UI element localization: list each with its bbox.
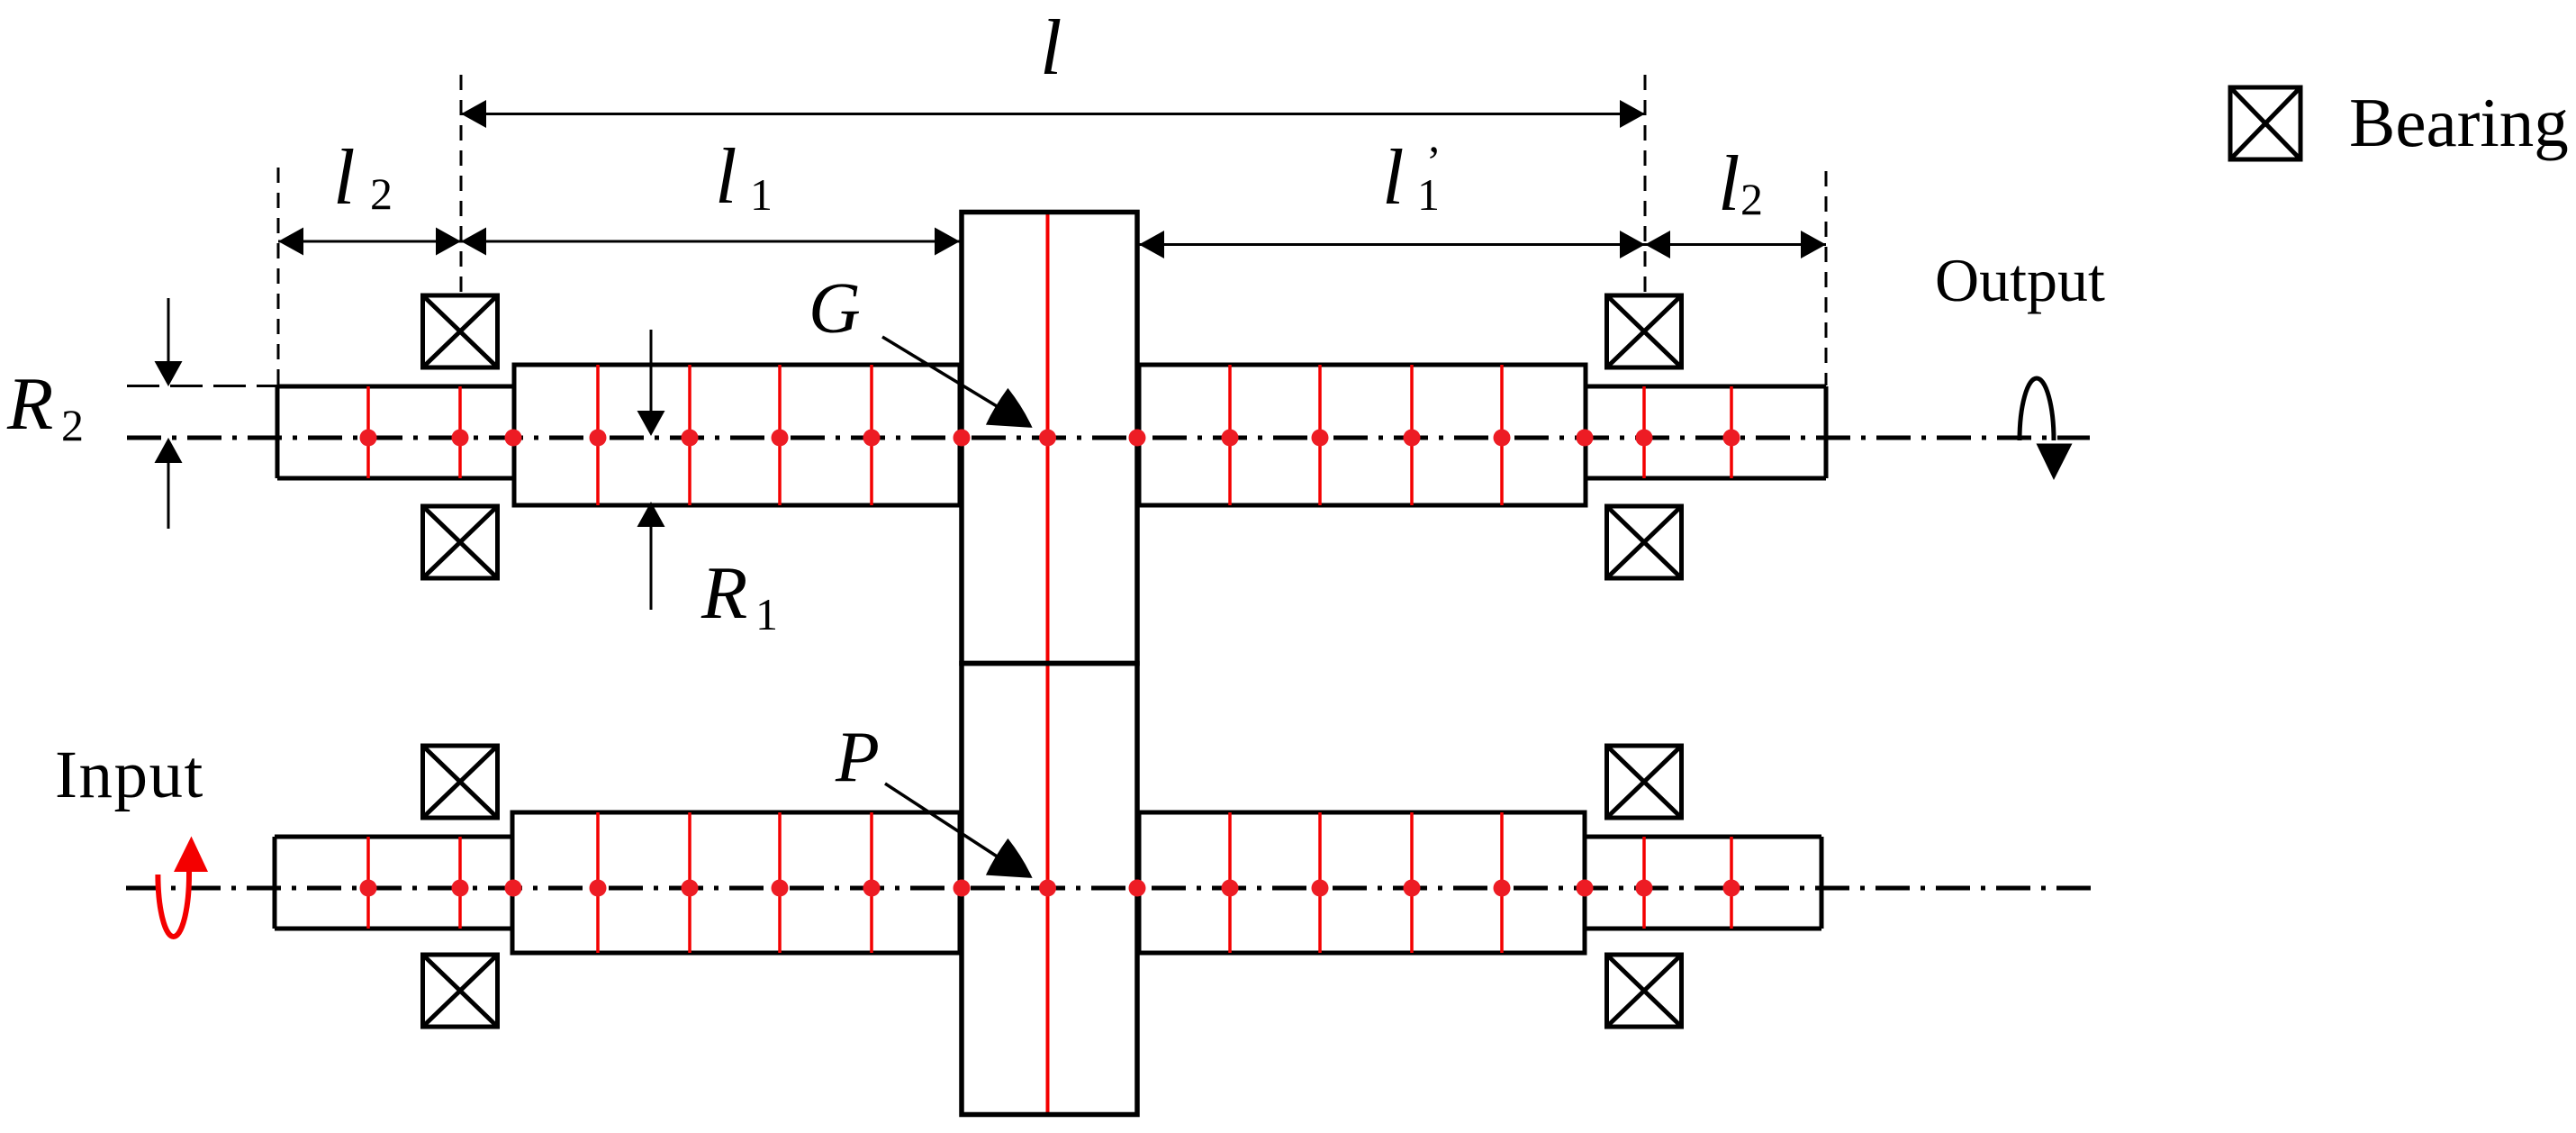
- bearing above lower-right journal: [1607, 746, 1682, 818]
- upper shaft right stub section: [1586, 386, 1826, 478]
- label R2: [6, 362, 84, 450]
- bearing below upper-left journal: [423, 506, 498, 578]
- leader arrow from G to gear centre: [882, 337, 1033, 428]
- R2 down arrow: [155, 298, 183, 386]
- svg-text:Bearing: Bearing: [2349, 84, 2569, 161]
- red FE node tick lower stub x=511: [458, 837, 462, 929]
- svg-text:2: 2: [370, 168, 393, 219]
- red FE node tick lower stub x=1923: [1730, 837, 1733, 929]
- label l1: [715, 133, 773, 221]
- red FE node tick upper big x=1668: [1500, 365, 1504, 505]
- svg-text:’: ’: [1426, 136, 1442, 186]
- bearing below upper-right journal: [1607, 506, 1682, 578]
- svg-text:R: R: [700, 551, 747, 635]
- red FE node tick upper stub x=409: [366, 386, 370, 478]
- upper shaft left big section (radius R1): [514, 365, 960, 505]
- gear mesh centre red line through G and P: [1046, 213, 1050, 1115]
- red FE node tick lower big x=664: [596, 812, 600, 953]
- bearing below lower-left journal: [423, 955, 498, 1027]
- red FE node tick upper big x=1366: [1228, 365, 1232, 505]
- dimension line l1: [461, 228, 960, 256]
- dashed extension line at right shaft end: [1825, 171, 1828, 385]
- red FE node tick lower big x=1366: [1228, 812, 1232, 953]
- leader arrow from P to gear centre: [885, 784, 1033, 878]
- red FE node tick upper stub x=1923: [1730, 386, 1733, 478]
- dimension line l1 prime: [1139, 231, 1645, 258]
- red FE node dots on upper centerline: [360, 430, 1740, 447]
- bearing below lower-right journal: [1607, 955, 1682, 1027]
- dimension line l between bearing centres: [461, 100, 1645, 128]
- svg-text:P: P: [835, 718, 880, 797]
- red FE node tick upper big x=968: [870, 365, 873, 505]
- lower shaft right stub section: [1585, 837, 1821, 929]
- svg-text:G: G: [809, 269, 861, 349]
- gear G body: [962, 213, 1137, 664]
- gear P body: [962, 664, 1137, 1115]
- upper shaft centerline (axis of rotation, output shaft): [127, 436, 2090, 440]
- dimension line l2 left: [278, 228, 461, 256]
- R1 down arrow: [637, 330, 665, 436]
- red FE node tick upper stub x=511: [458, 386, 462, 478]
- label l1 prime: [1382, 134, 1442, 222]
- svg-text:Input: Input: [55, 738, 204, 812]
- bearing above upper-right journal: [1607, 295, 1682, 367]
- svg-text:2: 2: [61, 400, 84, 450]
- lower shaft left stub section: [275, 837, 512, 929]
- red FE node tick lower big x=1466: [1318, 812, 1322, 953]
- red FE node tick upper big x=664: [596, 365, 600, 505]
- svg-text:l: l: [1382, 134, 1404, 222]
- legend bearing symbol: [2230, 87, 2300, 159]
- svg-text:l: l: [333, 134, 355, 222]
- dashed extension line at right bearing centre: [1644, 75, 1647, 296]
- red FE node tick upper big x=866: [778, 365, 782, 505]
- input rotation arrow (red): [158, 837, 208, 938]
- lower shaft right big section: [1139, 812, 1585, 953]
- svg-text:Output: Output: [1935, 246, 2105, 314]
- svg-text:l: l: [715, 133, 737, 221]
- dashed reference line at R2 surface: [127, 385, 277, 387]
- output rotation arrow: [2020, 378, 2073, 480]
- red FE node tick lower big x=968: [870, 812, 873, 953]
- red FE node tick upper big x=1466: [1318, 365, 1322, 505]
- svg-text:l: l: [1718, 140, 1740, 228]
- bearing above upper-left journal: [423, 295, 498, 367]
- red FE node tick lower big x=1668: [1500, 812, 1504, 953]
- red FE node tick upper big x=766: [688, 365, 691, 505]
- svg-text:l: l: [1040, 5, 1062, 92]
- lower shaft left big section: [512, 812, 960, 953]
- dashed extension line at left shaft end: [277, 168, 280, 385]
- label R1: [700, 551, 778, 639]
- red FE node tick lower stub x=1826: [1642, 837, 1646, 929]
- red FE node tick upper big x=1568: [1410, 365, 1414, 505]
- bearing above lower-left journal: [423, 746, 498, 818]
- red FE node dots on lower centerline: [360, 880, 1740, 897]
- red FE node tick lower big x=766: [688, 812, 691, 953]
- label l2 left: [333, 134, 393, 222]
- lower shaft centerline (axis of rotation, input shaft): [126, 886, 2101, 891]
- dimension line l2 right: [1645, 231, 1826, 258]
- dashed extension line at left bearing centre: [460, 75, 463, 295]
- svg-text:1: 1: [755, 589, 778, 639]
- R1 up arrow: [637, 502, 665, 610]
- red FE node tick lower big x=1568: [1410, 812, 1414, 953]
- svg-text:2: 2: [1740, 174, 1763, 224]
- upper shaft right big section: [1139, 365, 1586, 505]
- red FE node tick upper stub x=1826: [1642, 386, 1646, 478]
- label l2 right: [1718, 140, 1763, 228]
- upper shaft left stub section (journal, radius R2): [277, 386, 514, 478]
- R2 up arrow: [155, 438, 183, 529]
- red FE node tick lower big x=866: [778, 812, 782, 953]
- svg-text:1: 1: [750, 169, 773, 220]
- svg-text:R: R: [6, 362, 53, 446]
- red FE node tick lower stub x=409: [366, 837, 370, 929]
